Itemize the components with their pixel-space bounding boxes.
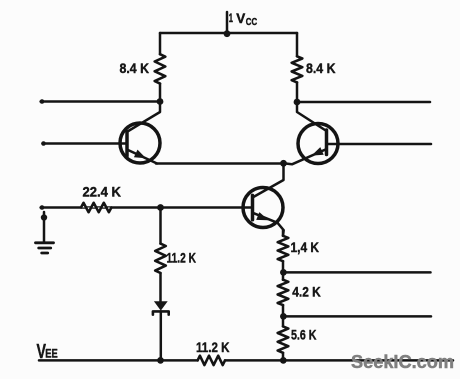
label 1VCC	[229, 10, 257, 28]
wire tap2 output	[283, 315, 431, 318]
wire Q3 collector	[253, 163, 284, 197]
svg-text:4.2 K: 4.2 K	[292, 284, 321, 300]
svg-text:8.4 K: 8.4 K	[120, 60, 150, 76]
junction dot left collector node	[157, 98, 164, 105]
junction dot tap2	[280, 313, 287, 320]
base bar Q2	[325, 130, 329, 155]
transistor Q2	[298, 124, 338, 164]
wire Q3 emitter to R4	[282, 231, 285, 236]
wire R4 to tap1	[282, 261, 285, 272]
svg-text:CC: CC	[246, 17, 257, 28]
resistor 11.2K middle	[155, 244, 166, 273]
base bar Q1	[125, 132, 129, 157]
wire diode to VEE rail	[160, 311, 163, 360]
svg-text:5.6 K: 5.6 K	[291, 327, 317, 343]
emitter Q2 with arrow	[284, 150, 326, 165]
wire Q3 base line	[41, 206, 253, 209]
wire R2 bottom to node	[296, 82, 299, 102]
emitter Q1 with arrow	[128, 150, 157, 164]
resistor 8.4K left	[155, 54, 166, 83]
junction dot tap1	[280, 269, 287, 276]
wire R1 bottom to node	[159, 84, 162, 102]
wire tap1 output	[283, 271, 430, 274]
wire VEE rail	[39, 359, 198, 362]
svg-text:V: V	[236, 10, 246, 26]
wire ground stub	[43, 212, 46, 242]
node VCC stub	[226, 12, 229, 34]
transistor Q1	[120, 123, 160, 163]
resistor 22.4K	[81, 203, 111, 212]
transistor Q3	[243, 188, 283, 228]
wire R3 to diode	[159, 273, 162, 301]
emitter Q3 with arrow	[254, 213, 284, 236]
junction dot R6 rail	[280, 357, 287, 364]
resistor 1.4K	[278, 236, 289, 261]
svg-text:1,4 K: 1,4 K	[291, 239, 320, 255]
svg-text:EE: EE	[45, 347, 58, 361]
ground	[36, 243, 54, 253]
wire left output line	[41, 100, 160, 103]
wire base node to R3	[159, 208, 162, 244]
svg-text:SeekIC.com: SeekIC.com	[351, 351, 454, 372]
resistor 8.4K right	[292, 56, 303, 82]
resistor 5.6K	[278, 326, 289, 352]
wire tap1 to R5	[282, 272, 285, 279]
wire R6 to VEE rail	[282, 353, 285, 361]
svg-text:1: 1	[229, 11, 233, 25]
base bar Q3	[251, 195, 255, 219]
wire Q1 base input	[43, 142, 128, 145]
junction dot VCC	[224, 30, 231, 37]
terminal dot base line start	[40, 205, 45, 210]
terminal dot ground stub	[41, 214, 47, 220]
wire tap2 to R6	[282, 316, 285, 326]
wire right output line	[297, 101, 430, 104]
wire Q2 collector	[297, 102, 327, 131]
wire common emitter	[156, 162, 284, 165]
svg-text:11.2 K: 11.2 K	[167, 250, 197, 266]
wire left rail drop to R1	[159, 33, 162, 54]
wire Q2 base line	[327, 143, 432, 146]
wire Q1 collector	[128, 102, 161, 132]
wire R5 to tap2	[282, 305, 285, 316]
label VEE	[37, 341, 58, 363]
junction dot diode rail	[157, 357, 164, 364]
svg-text:11.2 K: 11.2 K	[196, 339, 230, 355]
terminal dot left input	[41, 141, 46, 146]
terminal dot left output	[40, 99, 45, 104]
wire right rail drop to R2	[296, 33, 299, 56]
resistor 4.2K	[278, 280, 289, 305]
wire top rail VCC	[160, 32, 297, 35]
svg-text:8.4 K: 8.4 K	[306, 60, 336, 76]
resistor 11.2K bottom	[198, 356, 225, 365]
junction dot common emitter node	[280, 160, 287, 167]
junction dot right collector node	[294, 99, 301, 106]
diode D1	[154, 301, 168, 310]
svg-text:22.4 K: 22.4 K	[83, 184, 122, 200]
junction dot base node	[157, 204, 164, 211]
